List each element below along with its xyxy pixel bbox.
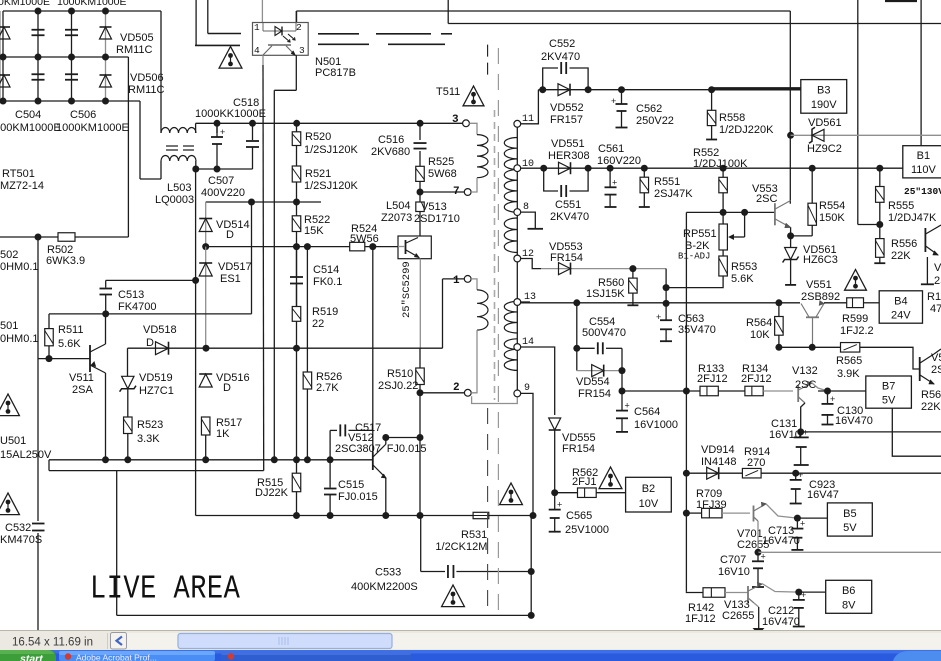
wire LIVE left border xyxy=(116,471,118,616)
barrier dash row2 left xyxy=(195,44,240,46)
wire V132 c to B7 xyxy=(818,390,866,392)
wire x921 to B1 xyxy=(920,0,922,146)
taskbar window button 1 xyxy=(59,651,215,661)
svg-text:501: 501 xyxy=(0,320,18,332)
wire HV bus y123 xyxy=(196,122,466,124)
node B1 box xyxy=(903,146,941,178)
diode VD506 xyxy=(100,75,112,87)
junction x576 top xyxy=(573,299,580,306)
junction x686 vd914 xyxy=(683,470,690,477)
svg-text:VD914: VD914 xyxy=(701,444,735,456)
svg-text:FR154: FR154 xyxy=(562,443,595,455)
svg-text:R510: R510 xyxy=(387,368,413,380)
svg-text:HZ9C2: HZ9C2 xyxy=(807,143,842,155)
wire V513 emitter xyxy=(419,259,421,349)
junction x576 mid xyxy=(573,345,580,352)
wire R142 row xyxy=(686,591,703,592)
junction bridge xyxy=(102,98,109,105)
resistor R709 xyxy=(702,508,722,517)
resistor R558 xyxy=(707,110,716,125)
svg-text:RP551: RP551 xyxy=(683,228,717,240)
wire primary upper bracket xyxy=(469,123,477,134)
wire L504 col xyxy=(419,192,421,202)
junction R523 end xyxy=(124,456,131,463)
svg-text:C506: C506 xyxy=(70,109,96,121)
svg-text:22: 22 xyxy=(312,318,324,330)
junction V553 e xyxy=(787,232,794,239)
svg-text:000KM1000E: 000KM1000E xyxy=(0,122,61,134)
diode VD553 xyxy=(559,263,571,275)
wire cap col 38 lower xyxy=(37,57,39,101)
svg-text:B1-ADJ: B1-ADJ xyxy=(678,252,710,262)
pin 8 xfmr xyxy=(514,209,521,216)
svg-text:V132: V132 xyxy=(792,365,818,377)
diode left bottom partial xyxy=(0,75,10,87)
svg-text:22K: 22K xyxy=(891,250,911,262)
wire R558 top xyxy=(711,90,713,111)
junction railB a xyxy=(540,165,547,172)
svg-text:VD561: VD561 xyxy=(808,117,842,129)
svg-text:5W56: 5W56 xyxy=(350,233,379,245)
junction VD561 node xyxy=(787,132,794,139)
transistor N501 photo xyxy=(263,45,295,55)
svg-text:R56: R56 xyxy=(921,389,941,401)
svg-text:HZ6C3: HZ6C3 xyxy=(803,254,838,266)
wire R552 top xyxy=(722,168,724,177)
wire x666 riser xyxy=(665,269,667,304)
svg-text:FJ0.015: FJ0.015 xyxy=(338,491,378,503)
warning triangle T511 xyxy=(463,86,484,106)
warning triangle left mid xyxy=(0,394,19,416)
start button xyxy=(0,650,56,661)
svg-text:D: D xyxy=(226,229,234,241)
svg-text:1/2DJ47K: 1/2DJ47K xyxy=(888,212,937,224)
resistor R524 xyxy=(350,242,365,251)
wire pin13 rail xyxy=(521,302,779,304)
junction live bottom xyxy=(528,612,535,619)
warning triangle near opto xyxy=(219,47,242,69)
svg-text:R551: R551 xyxy=(654,176,680,188)
svg-text:C515: C515 xyxy=(338,479,364,491)
junction R520 top xyxy=(293,120,300,127)
capacitor C518 xyxy=(246,123,259,169)
svg-text:L504: L504 xyxy=(386,200,410,212)
wire left column x3 xyxy=(2,11,4,101)
pin 10 xfmr xyxy=(514,165,521,172)
wire x858 link xyxy=(858,224,880,226)
diode VD519 zener xyxy=(120,376,136,391)
pin 12 xfmr xyxy=(514,255,521,262)
wire primary upper bottom xyxy=(471,178,477,192)
resistor R556 xyxy=(876,239,885,258)
svg-text:U501: U501 xyxy=(0,435,26,447)
wire x38 lower xyxy=(37,533,39,631)
wire VD51x col xyxy=(205,202,207,247)
junction railB r555 xyxy=(876,165,883,172)
wire V551 e to R599 xyxy=(824,302,847,304)
resistor R511 xyxy=(45,329,54,346)
junction bridge xyxy=(68,98,75,105)
junction C130 top xyxy=(824,388,831,395)
svg-text:24V: 24V xyxy=(891,309,911,321)
resistor R517 xyxy=(201,417,210,435)
svg-text:D: D xyxy=(146,337,154,349)
wire V512 collector up xyxy=(385,438,387,445)
wire R531 right xyxy=(489,515,533,517)
junction bridge xyxy=(68,8,75,15)
wire R510 top xyxy=(419,348,421,368)
junction x38 top xyxy=(35,234,42,241)
svg-text:C532: C532 xyxy=(5,522,31,534)
light arrows N501 xyxy=(283,34,295,42)
svg-text:R564: R564 xyxy=(746,317,772,329)
junction C131 top xyxy=(797,428,804,435)
svg-text:B1: B1 xyxy=(917,150,930,162)
svg-text:V551: V551 xyxy=(806,279,832,291)
capacitor C506 lower xyxy=(65,74,78,80)
wire railA xyxy=(538,89,711,91)
inductor T511 secondary mid xyxy=(504,218,517,253)
wire C554 row b xyxy=(606,347,622,349)
svg-text:C565: C565 xyxy=(566,510,592,522)
wire VD554 row xyxy=(577,370,622,372)
junction bridge xyxy=(35,54,42,61)
wire y237 rail xyxy=(0,236,58,238)
wire x622 riser xyxy=(621,348,623,370)
node B2 box xyxy=(626,477,672,512)
transistor V132 xyxy=(798,381,812,403)
barrier dash row1 left xyxy=(208,33,241,35)
svg-text:160V220: 160V220 xyxy=(597,155,641,167)
svg-text:B4: B4 xyxy=(894,295,907,307)
junction R510 col b xyxy=(417,434,424,441)
wire R510 bottom xyxy=(419,385,421,393)
junction V512 c xyxy=(382,434,389,441)
svg-text:RT501: RT501 xyxy=(2,168,35,180)
junction R511 base xyxy=(46,355,53,362)
svg-text:C551: C551 xyxy=(555,199,581,211)
svg-text:0HM0.1: 0HM0.1 xyxy=(0,261,39,273)
capacitor C130 xyxy=(822,391,836,425)
wire R562 to B2 xyxy=(596,492,625,494)
resistor R562 xyxy=(578,488,597,498)
wire T511 bottom yoke xyxy=(472,396,518,403)
capacitor C504 lower xyxy=(32,74,45,80)
wire x140 down xyxy=(139,101,141,179)
svg-text:2SJ0.22: 2SJ0.22 xyxy=(378,380,418,392)
pin 14 xfmr xyxy=(514,344,521,351)
svg-text:Z2073: Z2073 xyxy=(381,212,412,224)
svg-text:B3: B3 xyxy=(817,85,830,97)
svg-text:1: 1 xyxy=(453,275,460,287)
junction y202 b xyxy=(293,199,300,206)
junction railA c562 xyxy=(618,86,625,93)
wire to B6 xyxy=(799,591,826,593)
junction bridge xyxy=(68,54,75,61)
wire x38 main xyxy=(37,237,39,521)
svg-text:47: 47 xyxy=(930,303,941,315)
wire railB xyxy=(521,167,903,169)
transistor V512 xyxy=(373,444,386,478)
svg-text:VD506: VD506 xyxy=(130,72,164,84)
junction bridge xyxy=(35,98,42,105)
junction pin9 rail xyxy=(530,512,537,519)
junction B2 rail left xyxy=(619,388,626,395)
resistor R525 xyxy=(416,166,425,181)
capacitor C561 xyxy=(605,168,618,207)
inductor T511 secondary low2 xyxy=(504,339,517,371)
junction railB r554 xyxy=(809,165,816,172)
resistor R551 xyxy=(640,177,649,193)
wire x448 stub xyxy=(447,0,449,24)
transistor V552 edge xyxy=(925,225,941,255)
wire L503 bottom-left lead xyxy=(160,161,162,179)
wire thick to B3 xyxy=(712,87,801,90)
junction railB r551 xyxy=(641,165,648,172)
svg-text:16V470: 16V470 xyxy=(835,415,873,427)
svg-text:10V: 10V xyxy=(639,498,659,510)
warning triangle below xfmr xyxy=(500,483,523,505)
svg-text:1/2CK12M: 1/2CK12M xyxy=(435,541,487,553)
svg-text:400V220: 400V220 xyxy=(201,187,245,199)
svg-text:1FJ12: 1FJ12 xyxy=(685,613,716,625)
wire V701 emitter xyxy=(757,521,759,552)
inductor T511 secondary upper xyxy=(504,138,517,213)
junction V551 node xyxy=(775,299,782,306)
wire x372 column xyxy=(372,247,374,452)
svg-text:C507: C507 xyxy=(208,175,234,187)
svg-text:VD552: VD552 xyxy=(550,102,584,114)
svg-text:1FJ2.2: 1FJ2.2 xyxy=(840,325,874,337)
svg-text:FJ0.015: FJ0.015 xyxy=(387,443,427,455)
wire C551 bracket xyxy=(544,168,558,191)
junction C507 bottom xyxy=(214,166,221,173)
svg-text:+: + xyxy=(611,96,616,106)
wire x251 down xyxy=(251,202,253,314)
svg-text:2SD1710: 2SD1710 xyxy=(414,213,460,225)
wire R515 top lead xyxy=(296,460,298,473)
junction bridge xyxy=(0,98,7,105)
wire C516-R525 xyxy=(419,151,421,166)
junction C563 top xyxy=(663,300,670,307)
svg-text:1: 1 xyxy=(254,22,260,33)
junction C565 top xyxy=(551,489,558,496)
wire feedback y11 xyxy=(296,10,790,12)
junction C515 bot xyxy=(327,512,334,519)
junction y348 a xyxy=(203,345,210,352)
wire R564 top xyxy=(778,303,780,317)
svg-text:C707: C707 xyxy=(720,554,746,566)
junction B6 node xyxy=(795,589,802,596)
svg-text:2KV680: 2KV680 xyxy=(371,146,410,158)
wire R556 top lead xyxy=(879,225,881,239)
svg-text:+: + xyxy=(557,500,562,510)
svg-text:VD554: VD554 xyxy=(576,376,610,388)
resistor R564 xyxy=(775,317,784,336)
svg-text:FR157: FR157 xyxy=(550,114,583,126)
svg-text:R520: R520 xyxy=(305,131,331,143)
wire V553 e down xyxy=(790,228,792,236)
resistor R502 xyxy=(58,233,75,242)
junction pin3col end xyxy=(271,456,278,463)
svg-text:R554: R554 xyxy=(819,200,845,212)
capacitor C131 xyxy=(794,428,809,465)
junction e V511 xyxy=(102,456,109,463)
svg-text:+: + xyxy=(625,401,630,411)
wire R520 col xyxy=(296,123,298,460)
wire R524 to base xyxy=(365,246,398,248)
wire x442 riser xyxy=(442,279,444,348)
svg-text:B5: B5 xyxy=(843,508,856,520)
svg-text:1000KM1000E: 1000KM1000E xyxy=(57,0,126,8)
svg-text:16V10: 16V10 xyxy=(718,566,750,578)
wire V133 collector xyxy=(762,584,799,593)
barrier dash row1 right xyxy=(318,33,452,35)
svg-text:1/2SJ120K: 1/2SJ120K xyxy=(304,180,358,192)
svg-text:1K: 1K xyxy=(216,428,230,440)
wire V132 emitter xyxy=(801,403,805,432)
capacitor C212 xyxy=(793,590,806,627)
svg-text:8: 8 xyxy=(523,202,529,213)
svg-text:RM11C: RM11C xyxy=(128,84,165,96)
svg-text:R1: R1 xyxy=(927,291,941,303)
svg-text:KM470S: KM470S xyxy=(0,534,42,546)
wire middle bus y57 xyxy=(0,56,128,58)
wire top edge segment xyxy=(885,0,917,2)
junction y246 a xyxy=(293,243,300,250)
wire diode col 105.5 xyxy=(105,11,107,101)
stub R560 xyxy=(627,293,638,305)
svg-text:+: + xyxy=(220,127,225,137)
svg-text:5V: 5V xyxy=(882,394,896,406)
diode VD516 xyxy=(199,374,212,387)
capacitor C532 xyxy=(32,524,45,531)
node B6 box xyxy=(826,580,872,613)
svg-text:10K: 10K xyxy=(750,329,770,341)
svg-text:5W68: 5W68 xyxy=(428,168,457,180)
svg-text:110V: 110V xyxy=(911,164,937,176)
inductor L503 top winding xyxy=(161,128,196,134)
svg-text:190V: 190V xyxy=(811,99,837,111)
potentiometer RP551 xyxy=(719,212,745,250)
wire VD517 col xyxy=(205,247,207,349)
capacitor C554 xyxy=(598,342,603,354)
svg-text:LQ0003: LQ0003 xyxy=(155,194,194,206)
svg-text:16V47: 16V47 xyxy=(807,489,839,501)
diode VD505 xyxy=(100,27,112,39)
wire VD561 row xyxy=(791,134,941,136)
junction R565 a xyxy=(775,344,782,351)
warning triangle near B2 xyxy=(599,467,622,489)
svg-text:1000KK1000E: 1000KK1000E xyxy=(195,108,266,120)
wire C507 top lead xyxy=(216,123,218,133)
junction bridge xyxy=(35,8,42,15)
svg-text:2SC3807: 2SC3807 xyxy=(335,443,381,455)
wire C552 bracket xyxy=(543,68,558,90)
wire dash feed a xyxy=(195,0,197,45)
wire R551 top xyxy=(643,168,645,177)
stub R558 xyxy=(706,126,717,140)
svg-text:35V470: 35V470 xyxy=(678,324,716,336)
svg-text:C533: C533 xyxy=(375,567,401,579)
svg-text:V5: V5 xyxy=(934,262,941,274)
warning triangle left low xyxy=(0,493,19,515)
inductor T511 secondary low1 xyxy=(504,301,517,333)
node B4 box xyxy=(879,291,922,323)
node B3 box xyxy=(801,80,847,114)
svg-text:VD551: VD551 xyxy=(551,138,585,150)
svg-text:R565: R565 xyxy=(836,355,862,367)
wire R564 bot xyxy=(778,335,780,347)
inductor T511 primary upper xyxy=(477,135,488,178)
wire R565 to edge tr xyxy=(860,347,920,369)
junction x686 r709 xyxy=(683,510,690,517)
wire x576 down xyxy=(576,303,578,371)
wire dash feed b xyxy=(207,0,209,34)
svg-text:2S: 2S xyxy=(931,364,941,376)
transistor V133 xyxy=(748,582,762,603)
svg-text:C552: C552 xyxy=(549,38,575,50)
capacitor C515 xyxy=(324,460,337,516)
capacitor C707 xyxy=(752,552,766,588)
wire opto pin2 lead xyxy=(295,11,297,23)
svg-text:2SB892: 2SB892 xyxy=(801,291,840,303)
resistor R521 xyxy=(292,166,301,182)
junction VD554 right xyxy=(619,367,626,374)
core L503 b xyxy=(166,149,194,151)
capacitor C713 xyxy=(791,518,805,550)
svg-text:R523: R523 xyxy=(137,419,163,431)
junction base col xyxy=(369,243,376,250)
junction railA thick xyxy=(708,86,715,93)
resistor R531 xyxy=(473,512,489,518)
diode VD518 xyxy=(156,342,169,355)
wire C533 right xyxy=(456,571,531,573)
svg-text:250V22: 250V22 xyxy=(636,115,674,127)
svg-text:R556: R556 xyxy=(891,238,917,250)
svg-text:R519: R519 xyxy=(312,306,338,318)
resistor R520 xyxy=(292,132,301,146)
svg-text:1000KM1000E: 1000KM1000E xyxy=(56,122,129,134)
wire pin12 step xyxy=(521,259,541,269)
capacitor C513 xyxy=(100,280,113,314)
svg-text:R553: R553 xyxy=(731,261,757,273)
svg-text:HZ7C1: HZ7C1 xyxy=(139,385,174,397)
core L503 xyxy=(166,145,194,147)
svg-text:5V: 5V xyxy=(843,522,857,534)
wire opto pin3 jog xyxy=(274,89,296,91)
junction R526 end xyxy=(304,456,311,463)
resistor R515 xyxy=(292,473,301,492)
stub R551 xyxy=(639,193,650,207)
svg-text:2SJ47K: 2SJ47K xyxy=(654,188,693,200)
wire pin9 riser xyxy=(521,393,533,515)
svg-text:0KM1000E: 0KM1000E xyxy=(0,0,50,8)
wire R523 bottom xyxy=(127,434,129,460)
svg-text:R521: R521 xyxy=(305,168,331,180)
junction R560 top xyxy=(629,265,636,272)
svg-text:FK4700: FK4700 xyxy=(118,301,157,313)
junction R515 bot xyxy=(293,512,300,519)
junction V512 e xyxy=(382,512,389,519)
wire C552 bracket r xyxy=(570,68,589,90)
svg-text:R531: R531 xyxy=(461,529,487,541)
wire R517 bottom xyxy=(205,435,207,460)
ground pin8 bar xyxy=(528,228,544,230)
junction railA c552r xyxy=(585,86,592,93)
svg-text:ES1: ES1 xyxy=(220,273,241,285)
wire R526 col top xyxy=(306,247,308,372)
